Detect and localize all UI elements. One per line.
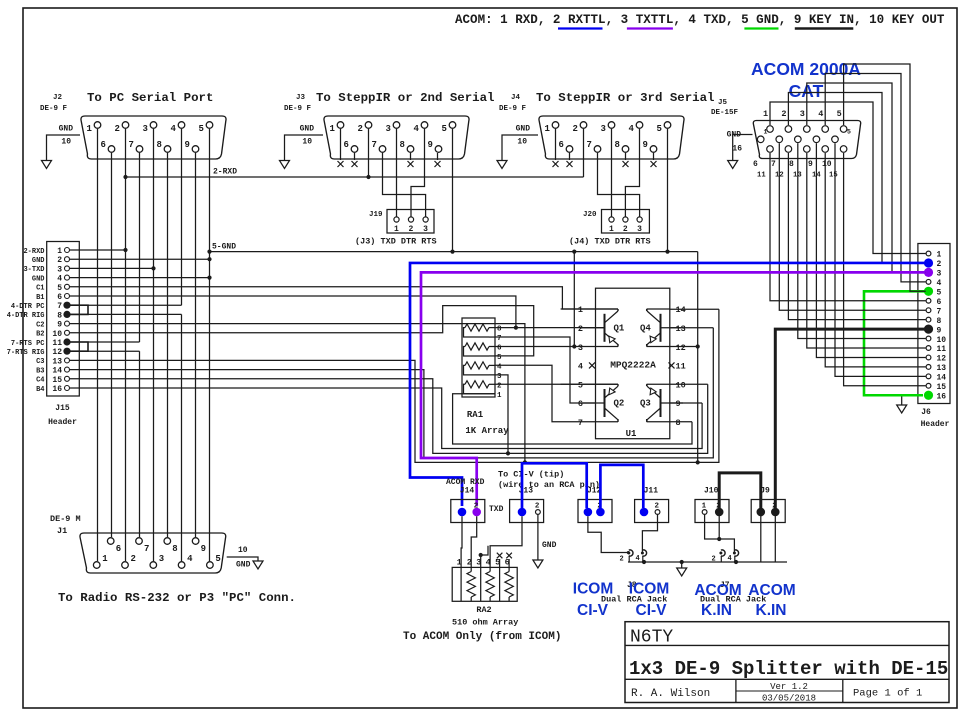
svg-text:2: 2	[57, 256, 62, 265]
svg-text:To CI-V (tip): To CI-V (tip)	[498, 470, 564, 480]
svg-text:6: 6	[559, 140, 564, 150]
svg-text:1K Array: 1K Array	[465, 426, 509, 436]
svg-text:13: 13	[937, 364, 947, 373]
wire J9 pin2 sleeve drop	[774, 516, 776, 562]
svg-text:To SteppIR or 3rd Serial: To SteppIR or 3rd Serial	[536, 91, 714, 105]
svg-text:11: 11	[937, 345, 947, 354]
svg-text:J2: J2	[53, 94, 63, 102]
svg-text:12: 12	[52, 348, 62, 357]
wire J15 pin7 to DTR PC bus	[70, 304, 182, 306]
svg-text:Q4: Q4	[640, 323, 651, 333]
wire blue J12 pin2 to J11 pin1	[600, 465, 643, 508]
svg-text:9: 9	[57, 321, 62, 330]
wire bus J2 pin2 to J1 pin2 (RXD)	[125, 129, 127, 561]
svg-text:10: 10	[61, 138, 71, 147]
svg-text:ICOM: ICOM	[629, 581, 669, 598]
svg-text:12: 12	[676, 343, 686, 353]
svg-text:2: 2	[937, 260, 942, 269]
svg-text:2: 2	[131, 554, 136, 564]
svg-text:7: 7	[771, 160, 776, 169]
legend underline TXTTL (purple)	[627, 27, 673, 29]
wire RA2 pin3 hook	[479, 546, 488, 568]
RCA jack J10	[695, 487, 729, 523]
svg-text:8: 8	[57, 311, 62, 320]
svg-text:Q3: Q3	[640, 399, 651, 409]
svg-text:3: 3	[57, 265, 62, 274]
svg-text:1: 1	[545, 124, 551, 134]
svg-text:1: 1	[102, 554, 108, 564]
RCA jack J14	[451, 487, 485, 523]
svg-text:2: 2	[620, 556, 624, 564]
svg-text:1: 1	[609, 225, 614, 234]
svg-text:B2: B2	[36, 331, 44, 339]
wire J5 to J6 pin13	[825, 153, 926, 367]
svg-text:13: 13	[52, 357, 62, 366]
wire 5-GND drop to U1 pin3	[573, 252, 575, 347]
svg-text:1: 1	[702, 503, 707, 511]
svg-text:To PC Serial Port: To PC Serial Port	[87, 91, 213, 105]
RCA jack J11	[635, 487, 669, 523]
svg-text:1x3 DE-9 Splitter with DE-15: 1x3 DE-9 Splitter with DE-15	[629, 658, 948, 680]
wire J10 pin2 sleeve drop	[718, 516, 720, 539]
wire 5-GND right drop	[696, 252, 700, 465]
svg-text:3: 3	[423, 225, 428, 234]
svg-text:B1: B1	[36, 294, 44, 302]
svg-text:10: 10	[676, 380, 686, 390]
svg-text:J6: J6	[921, 408, 931, 417]
svg-text:1: 1	[764, 129, 768, 136]
wire J5 to J6 pin8	[788, 153, 925, 320]
wire J15 pin8 to DTR RIG bus	[70, 313, 182, 315]
wire U1 pin9 right staircase	[670, 402, 702, 404]
svg-text:03/05/2018: 03/05/2018	[762, 694, 816, 704]
svg-text:4: 4	[629, 124, 635, 134]
svg-text:4: 4	[937, 279, 942, 288]
svg-text:6: 6	[116, 544, 121, 554]
svg-text:ACOM 2000A: ACOM 2000A	[751, 59, 861, 79]
svg-text:2: 2	[409, 225, 414, 234]
RCA jack J9	[751, 487, 785, 523]
wire J3 pin3 to J19 pin1 (TXD)	[396, 129, 398, 217]
wire bus J2 pin5 to J1 pin5 (GND)	[209, 129, 211, 561]
svg-text:J19: J19	[369, 211, 383, 219]
J5 ground GND pin 16	[727, 131, 753, 169]
wire J15 pin1 to RXD bus	[70, 248, 128, 252]
svg-text:5: 5	[57, 284, 62, 293]
svg-text:Q2: Q2	[614, 399, 625, 409]
legend text ACOM pin functions	[455, 13, 945, 27]
svg-text:4: 4	[171, 124, 177, 134]
svg-text:7: 7	[144, 544, 149, 554]
svg-text:(J4) TXD DTR RTS: (J4) TXD DTR RTS	[569, 237, 651, 247]
wire RA1 pin3 staircase down	[495, 375, 510, 456]
svg-text:2: 2	[497, 382, 502, 390]
svg-text:10: 10	[822, 160, 832, 169]
svg-text:9: 9	[676, 399, 681, 409]
J4 ground GND pin 10	[497, 125, 538, 169]
wire U1 pin8 right staircase	[670, 421, 692, 423]
svg-text:4: 4	[818, 109, 823, 119]
svg-text:8: 8	[789, 160, 794, 169]
svg-text:2: 2	[573, 124, 578, 134]
connector J2 DE-9 F	[40, 91, 226, 159]
svg-text:ACOM: 1 RXD, 2 RXTTL, 3 TXTTL: ACOM: 1 RXD, 2 RXTTL, 3 TXTTL, 4 TXD, 5 …	[455, 13, 945, 27]
wire J5 to J6 pin10	[798, 143, 926, 338]
svg-text:B4: B4	[36, 386, 44, 394]
svg-text:J15: J15	[55, 404, 70, 413]
net 5-GND horizontal	[207, 243, 697, 254]
wire bus J2 pin9 to J1 pin9	[195, 153, 197, 537]
svg-text:1: 1	[578, 305, 583, 315]
svg-text:RA2: RA2	[476, 605, 491, 615]
header J6 16-pin	[918, 244, 950, 430]
svg-text:8: 8	[676, 418, 681, 428]
title block author	[631, 688, 710, 700]
wire J5 to J6 pin14	[835, 143, 926, 376]
svg-text:6: 6	[101, 140, 106, 150]
wire black J10 pin2 to J9 pin1 bridge	[719, 473, 761, 509]
wire bus J2 pin7 upper segment (RTS PC)	[139, 153, 141, 342]
svg-text:GND: GND	[542, 541, 557, 550]
wire J3 pin5 to 5-GND	[452, 129, 454, 252]
svg-text:J9: J9	[760, 487, 770, 496]
wire U1 pin14 right	[670, 308, 719, 310]
svg-text:3: 3	[637, 225, 642, 234]
legend underline KEY IN (black)	[795, 27, 854, 29]
svg-text:4-DTR PC: 4-DTR PC	[11, 303, 45, 311]
svg-text:3: 3	[386, 124, 391, 134]
svg-text:J20: J20	[583, 211, 597, 219]
wire J5 to J6 pin15	[844, 153, 926, 386]
svg-text:DE-15F: DE-15F	[711, 109, 739, 117]
svg-text:6: 6	[753, 160, 758, 169]
svg-text:GND: GND	[32, 257, 45, 265]
svg-text:2: 2	[115, 124, 120, 134]
wire U1 pin10 right	[670, 383, 708, 385]
wire J12 pin1 to RCA jack 2	[588, 516, 630, 554]
svg-text:9: 9	[185, 140, 190, 150]
svg-text:6: 6	[578, 399, 583, 409]
J2 ground GND pin 10	[42, 125, 81, 169]
svg-text:3-TXD: 3-TXD	[23, 266, 44, 274]
wire J4 pin7 to J20 pin3 (RTS)	[598, 153, 640, 217]
wire bus J2 pin6 to J1 pin6	[111, 153, 113, 537]
wire RCA sleeve ground bus	[628, 560, 787, 576]
wire RA1 pin8 to U1 pin2 base Q1	[495, 327, 605, 329]
transistor array U1 MPQ2222A	[578, 288, 686, 439]
svg-text:5: 5	[937, 289, 942, 298]
svg-text:J14: J14	[460, 487, 475, 496]
svg-text:B3: B3	[36, 367, 44, 375]
wire J15 pin12 to RTS RIG bus	[70, 350, 140, 352]
wire RA1 pin6 to U1 pin3	[495, 344, 618, 348]
svg-text:12: 12	[937, 355, 947, 364]
svg-text:2: 2	[578, 324, 583, 334]
J15 jumper pins 7-8	[70, 305, 88, 314]
connector J19 3-pin	[355, 210, 437, 247]
svg-text:9: 9	[808, 160, 813, 169]
wire J5 pin2 to J6 pin2	[788, 93, 925, 263]
U1 internal pin leads	[561, 309, 683, 422]
svg-text:14: 14	[676, 305, 686, 315]
svg-text:DE-9 M: DE-9 M	[50, 514, 81, 524]
svg-text:TXD: TXD	[489, 505, 504, 514]
svg-text:1: 1	[57, 247, 62, 256]
svg-text:DE-9 F: DE-9 F	[40, 105, 68, 113]
wire purple TXTTL J6 pin3 to J14 pin2	[421, 272, 926, 506]
svg-text:7: 7	[587, 140, 592, 150]
annotation ICOM CI-V right	[629, 581, 669, 620]
svg-text:10: 10	[517, 138, 527, 147]
wire RA1 pin7 to U1 pin6 loop	[495, 337, 596, 403]
wire J15 pin4 to GND bus	[70, 276, 212, 280]
svg-text:RA1: RA1	[467, 410, 484, 420]
connector J4 DE-9 F	[499, 91, 714, 159]
annotation ICOM CI-V left	[573, 581, 613, 620]
svg-text:1: 1	[330, 124, 336, 134]
wire J5 pin4 to J6 pin4	[825, 74, 926, 282]
wire black KEY IN J6 pin9 to J9 pin2	[775, 329, 925, 509]
svg-text:CI-V: CI-V	[636, 602, 668, 619]
svg-text:(J3) TXD DTR RTS: (J3) TXD DTR RTS	[355, 237, 437, 247]
svg-text:6: 6	[497, 345, 502, 353]
svg-text:1: 1	[394, 225, 399, 234]
wire J15 pin3 to TXD bus	[70, 266, 156, 270]
svg-text:7: 7	[372, 140, 377, 150]
svg-text:5: 5	[578, 380, 583, 390]
svg-text:GND: GND	[516, 125, 531, 134]
wire bus J2 pin4 upper segment (DTR PC)	[181, 129, 183, 305]
transistor Q2	[605, 384, 625, 422]
svg-text:8: 8	[937, 317, 942, 326]
wire J15 pin6 B1 to RA1 pin8	[70, 296, 518, 330]
svg-text:C4: C4	[36, 377, 44, 385]
svg-text:6: 6	[937, 298, 942, 307]
J6 label wires green jumper pin5 to pin16	[864, 291, 926, 395]
wire bus J2 pin3 to J1 pin3 (TXD)	[153, 129, 155, 561]
svg-text:7-RTS RIG: 7-RTS RIG	[7, 349, 45, 357]
svg-text:J10: J10	[704, 487, 719, 496]
svg-text:(wire to an RCA pin): (wire to an RCA pin)	[498, 480, 600, 490]
svg-text:4: 4	[57, 275, 62, 284]
svg-text:7: 7	[129, 140, 134, 150]
wire J15 pin11 to RTS PC bus	[70, 341, 140, 343]
svg-text:16: 16	[732, 145, 742, 154]
dual RCA jack J7 (ACOM K.IN)	[700, 550, 766, 605]
connector J3 DE-9 F	[284, 91, 494, 159]
svg-text:14: 14	[52, 367, 62, 376]
svg-text:Header: Header	[48, 418, 77, 427]
svg-text:14: 14	[937, 374, 947, 383]
svg-text:8: 8	[615, 140, 620, 150]
wire blue RXTTL J6 pin2 to J14 pin1	[410, 263, 926, 506]
svg-text:9: 9	[201, 544, 206, 554]
svg-text:16: 16	[52, 385, 62, 394]
wire J3 pin7 to J19 pin3 (RTS)	[383, 153, 426, 217]
svg-text:5: 5	[215, 554, 220, 564]
wire bus J2 pin7 lower segment (RTS RIG)	[139, 351, 141, 537]
annotation ACOM K.IN right	[748, 582, 795, 619]
net 2-RXD horizontal	[123, 168, 583, 180]
svg-text:To ACOM Only (from ICOM): To ACOM Only (from ICOM)	[403, 631, 561, 643]
svg-text:C2: C2	[36, 321, 44, 329]
svg-text:3: 3	[578, 343, 583, 353]
svg-text:510 ohm Array: 510 ohm Array	[452, 618, 518, 628]
title block version	[762, 682, 816, 704]
svg-text:GND: GND	[236, 561, 251, 570]
wire J13 pin2 down to ground symbol	[533, 515, 557, 569]
J6 ground symbol	[897, 395, 916, 413]
wire J15 pin9 C2 down to bundle	[70, 324, 527, 465]
svg-text:K.IN: K.IN	[756, 602, 787, 619]
wire J14 pin1 to RA2 pin1	[460, 516, 463, 567]
title block text main title	[629, 658, 948, 680]
svg-text:5: 5	[657, 124, 662, 134]
connector J20 3-pin	[569, 210, 651, 247]
wire bus J2 pin8 to J1 pin8	[167, 153, 169, 537]
svg-text:7: 7	[57, 302, 62, 311]
svg-text:10: 10	[302, 138, 312, 147]
label ACOM RXD	[446, 478, 485, 487]
wire J11 pin2 to RCA jack 4	[642, 515, 657, 552]
wire J13 pin1 to RA2 pin4	[490, 516, 522, 567]
transistor Q1	[605, 309, 625, 347]
connector J1 DE-9 M	[50, 514, 296, 605]
svg-text:3: 3	[937, 270, 942, 279]
svg-text:CAT: CAT	[789, 81, 824, 101]
wire J4 pin5 to 5-GND	[667, 129, 669, 252]
connector J5 DE-15F	[711, 99, 861, 180]
wire RA1 pin4 to U1 pin7 loop	[495, 365, 596, 422]
svg-text:5: 5	[497, 354, 502, 362]
svg-text:GND: GND	[32, 275, 45, 283]
svg-text:Header: Header	[921, 420, 950, 429]
wire RA1 pin1 staircase down	[453, 394, 692, 444]
wire J5 to J6 pin12	[816, 143, 925, 357]
svg-text:11: 11	[757, 172, 766, 180]
legend underline GND (green)	[744, 27, 778, 29]
svg-text:4: 4	[578, 362, 583, 372]
svg-text:3: 3	[800, 109, 805, 119]
legend underline RXTTL (blue)	[558, 27, 603, 29]
svg-text:5: 5	[847, 129, 851, 136]
wire J9 pin1 sleeve drop	[760, 516, 762, 562]
svg-text:To SteppIR or 2nd Serial: To SteppIR or 2nd Serial	[316, 91, 494, 105]
svg-text:Page 1 of 1: Page 1 of 1	[853, 688, 922, 700]
svg-text:7: 7	[497, 335, 502, 343]
svg-text:DE-9 F: DE-9 F	[499, 105, 527, 113]
svg-text:5: 5	[199, 124, 204, 134]
svg-text:GND: GND	[300, 125, 315, 134]
svg-text:16: 16	[937, 392, 947, 401]
svg-text:11: 11	[676, 362, 686, 372]
transistor Q4	[640, 309, 661, 347]
wire U1 pin13 right	[670, 327, 714, 329]
svg-text:Ver 1.2: Ver 1.2	[770, 682, 808, 692]
label To CI-V tip note	[498, 470, 600, 491]
wire J5 pin1 to J6 pin1	[770, 102, 926, 254]
svg-text:9: 9	[643, 140, 648, 150]
svg-text:N6TY: N6TY	[630, 628, 673, 648]
svg-text:7: 7	[937, 307, 942, 316]
title block text N6TY	[630, 628, 673, 648]
wire J3 pin2 to 2-RXD	[368, 129, 370, 177]
dual RCA jack J8 (ICOM CI-V)	[601, 550, 667, 605]
wire U1 pin12 right	[670, 346, 698, 348]
svg-text:2: 2	[358, 124, 363, 134]
wire J15 pin16 B4 to U1 pin9	[70, 388, 702, 449]
wire RA1 pin2 to U1 pin5	[495, 383, 618, 385]
svg-text:8: 8	[497, 326, 502, 334]
svg-text:2-RXD: 2-RXD	[213, 168, 237, 177]
svg-text:15: 15	[829, 172, 838, 180]
wire J10 pin1 to RCA jack 4	[705, 515, 735, 552]
svg-text:9: 9	[428, 140, 433, 150]
svg-text:3: 3	[159, 554, 164, 564]
wire J4 pin2 to 2-RXD	[583, 129, 585, 177]
svg-text:10: 10	[238, 546, 248, 555]
wire J3 pin4 to J19 pin2 (DTR)	[411, 129, 425, 217]
svg-text:1: 1	[763, 109, 768, 119]
svg-text:DE-9 F: DE-9 F	[284, 105, 312, 113]
svg-text:15: 15	[52, 376, 62, 385]
svg-text:1: 1	[497, 392, 502, 400]
wire blue J13 pin1 to J12 pin1	[522, 463, 587, 508]
svg-text:GND: GND	[59, 125, 74, 134]
transistor Q3	[640, 384, 661, 422]
svg-text:J5: J5	[718, 99, 728, 107]
svg-text:3: 3	[497, 373, 502, 381]
J1 ground pin 10	[227, 546, 263, 570]
title block	[625, 622, 949, 703]
svg-text:7-RTS PC: 7-RTS PC	[11, 340, 45, 348]
wire J5 to J6 pin6	[770, 153, 926, 301]
svg-text:8: 8	[172, 544, 177, 554]
svg-text:6: 6	[344, 140, 349, 150]
wire J15 pin13 C3 to U1 pin14	[70, 309, 719, 462]
svg-text:C3: C3	[36, 358, 44, 366]
svg-text:10: 10	[52, 330, 62, 339]
wire J5 pin3 to J6 pin3	[807, 83, 926, 272]
svg-text:13: 13	[676, 324, 686, 334]
resistor array RA1 1K	[462, 318, 509, 436]
svg-text:MPQ2222A: MPQ2222A	[610, 360, 656, 371]
wire J5 pin5 to J6 pin5	[844, 64, 926, 291]
svg-text:To Radio RS-232 or P3 "PC" Con: To Radio RS-232 or P3 "PC" Conn.	[58, 591, 296, 605]
wire J4 pin4 to J20 pin2 (DTR)	[625, 129, 639, 217]
svg-text:1: 1	[87, 124, 93, 134]
svg-text:3: 3	[601, 124, 606, 134]
svg-text:4: 4	[187, 554, 193, 564]
J3 ground GND pin 10	[280, 125, 324, 169]
svg-text:15: 15	[937, 383, 947, 392]
wire J15 pin2 to GND bus	[70, 257, 212, 261]
svg-text:U1: U1	[626, 429, 637, 439]
svg-text:5-GND: 5-GND	[212, 243, 236, 252]
svg-text:4: 4	[497, 363, 502, 371]
label TXD	[489, 505, 504, 514]
RCA jack J13	[510, 487, 544, 523]
wire J14 pin2 to RA2 pin2	[471, 516, 477, 567]
title block page	[853, 688, 922, 700]
J3 unused pins X marks	[338, 129, 441, 167]
svg-text:11: 11	[52, 339, 62, 348]
svg-text:J1: J1	[57, 526, 67, 536]
svg-text:4: 4	[414, 124, 420, 134]
J4 unused pins X marks	[553, 129, 657, 167]
svg-text:5: 5	[442, 124, 447, 134]
svg-text:ACOM: ACOM	[694, 582, 741, 599]
